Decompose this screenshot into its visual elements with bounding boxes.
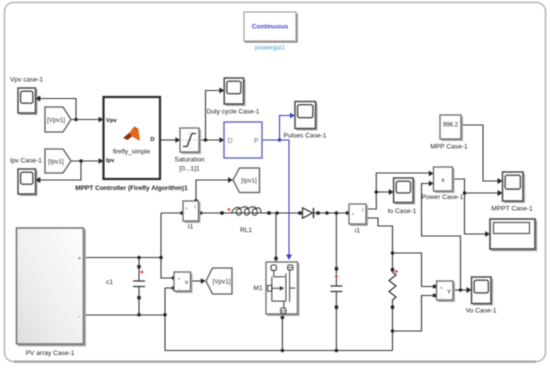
svg-text:MPPT Controller (Firefly Algor: MPPT Controller (Firefly Algorithm)1 (75, 185, 188, 192)
svg-text:c1: c1 (106, 279, 113, 286)
svg-text:+: + (178, 277, 181, 282)
svg-text:D: D (150, 137, 154, 143)
svg-text:I1: I1 (188, 224, 194, 231)
svg-text:Continuous: Continuous (252, 23, 289, 30)
svg-text:[Ipv1]: [Ipv1] (48, 159, 64, 166)
svg-text:RL1: RL1 (240, 227, 252, 234)
svg-text:powergui1: powergui1 (255, 45, 285, 52)
svg-text:PV array Case-1: PV array Case-1 (26, 350, 75, 357)
svg-text:+: + (78, 256, 81, 262)
svg-text:Io Case-1: Io Case-1 (388, 208, 417, 215)
svg-text:Ipv: Ipv (106, 158, 115, 164)
svg-text:D: D (228, 138, 233, 145)
svg-text:[Vpv1]: [Vpv1] (212, 279, 230, 286)
svg-text:M1: M1 (253, 285, 262, 292)
svg-text:i1: i1 (355, 228, 360, 235)
svg-text:[Ipv1]: [Ipv1] (241, 178, 257, 185)
svg-text:i: i (194, 205, 195, 211)
svg-text:Vo Case-1: Vo Case-1 (466, 308, 497, 315)
svg-text:Power Case-1: Power Case-1 (422, 194, 464, 201)
svg-text:v: v (448, 289, 451, 295)
svg-text:Vpv: Vpv (106, 118, 117, 124)
svg-text:+: + (185, 206, 188, 211)
svg-text:MPPT Case-1: MPPT Case-1 (491, 206, 533, 213)
svg-text:Pulses Case-1: Pulses Case-1 (284, 133, 327, 140)
svg-text:[0...1]1: [0...1]1 (179, 166, 199, 173)
svg-text:MPP Case-1: MPP Case-1 (430, 144, 468, 151)
svg-text:Saturation: Saturation (174, 157, 204, 164)
svg-text:Ipv Case-1: Ipv Case-1 (10, 158, 42, 165)
svg-text:+: + (440, 286, 443, 291)
svg-text:i: i (362, 208, 363, 214)
svg-text:Duty cycle Case-1: Duty cycle Case-1 (207, 109, 260, 116)
svg-text:[Vpv1]: [Vpv1] (47, 117, 65, 124)
svg-text:firefly_simple: firefly_simple (113, 149, 151, 156)
svg-text:996.2: 996.2 (443, 123, 459, 129)
svg-text:P: P (254, 138, 259, 145)
svg-text:+: + (352, 212, 355, 217)
svg-text:v: v (185, 280, 188, 286)
svg-text:Vpv case-1: Vpv case-1 (10, 77, 43, 84)
